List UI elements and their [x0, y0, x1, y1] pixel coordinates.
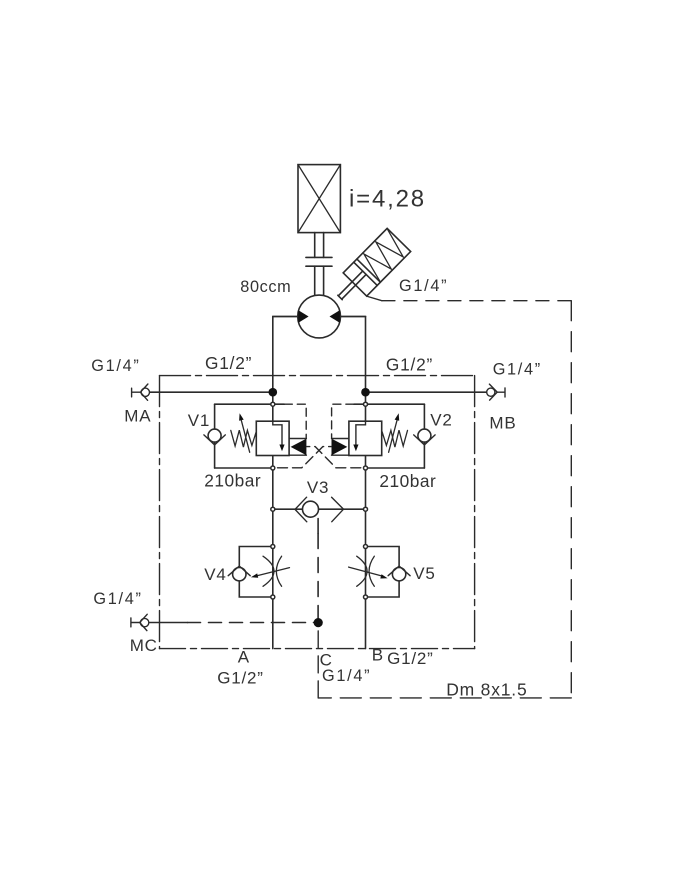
- hydraulic motor M1: [273, 295, 366, 338]
- svg-text:G1/4”: G1/4”: [399, 277, 448, 295]
- shaft (double line, two segments): [315, 233, 324, 296]
- V5 check ball: [392, 568, 405, 581]
- svg-text:V2: V2: [430, 410, 452, 429]
- V5 adjustment arrow: [349, 567, 381, 576]
- V1 spring: [231, 430, 256, 447]
- relief valve V2 loop top wire: [354, 403, 425, 405]
- block boundary left (dash-dot): [159, 376, 161, 649]
- phantom drain line Dm left segment to node C (dashed): [317, 627, 319, 698]
- svg-text:210bar: 210bar: [204, 471, 261, 491]
- wire V3 output stub: [317, 519, 319, 534]
- svg-text:210bar: 210bar: [379, 471, 436, 491]
- V4 check ball: [233, 568, 246, 581]
- V2 pilot line (dashed): [332, 404, 354, 438]
- svg-text:i=4,28: i=4,28: [349, 186, 426, 213]
- coupling ticks: [306, 257, 332, 266]
- svg-text:80ccm: 80ccm: [240, 278, 291, 296]
- phantom drain line Dm top (dashed): [382, 300, 571, 302]
- brake cylinder (45 deg): [329, 228, 410, 310]
- svg-text:G1/2”: G1/2”: [387, 649, 434, 668]
- phantom drain line Dm bottom (dashed): [318, 697, 571, 699]
- V2 spring: [382, 430, 408, 447]
- svg-text:MB: MB: [489, 413, 516, 432]
- node V3 right: [364, 507, 368, 511]
- phantom drain line Dm right (dashed): [570, 301, 572, 698]
- block boundary right (dash-dot): [474, 376, 476, 649]
- svg-text:V1: V1: [188, 411, 210, 430]
- relief valve V1 loop bottom wire: [215, 467, 273, 469]
- node V2 bottom: [364, 466, 368, 470]
- wire leg A (motor left port down to port A): [273, 317, 298, 649]
- wire MA line: [150, 391, 273, 393]
- node V4 top: [271, 545, 275, 549]
- wire leg B (motor right port down to port B): [340, 317, 365, 649]
- node V1 top: [271, 402, 275, 406]
- node V4 bottom: [271, 595, 275, 599]
- flow control V4 bypass loop: [239, 547, 272, 598]
- leader from brake port to phantom line: [367, 296, 382, 301]
- svg-text:G1/4”: G1/4”: [91, 357, 140, 375]
- V1 pilot line (dashed): [284, 404, 306, 438]
- port MC (test point): [131, 614, 149, 630]
- wire MC solid stub: [149, 622, 187, 624]
- svg-text:A: A: [238, 647, 250, 666]
- wire V3 output dashed to node C: [317, 534, 319, 619]
- wire MC dashed line to node C: [188, 622, 316, 624]
- node junction MA-legA (filled): [269, 388, 278, 397]
- relief valve V1 loop top wire: [215, 403, 285, 405]
- V4 adjustment arrow: [255, 568, 290, 577]
- block boundary top (dash-dot): [160, 375, 475, 377]
- svg-text:G1/2”: G1/2”: [217, 669, 264, 688]
- node C (filled): [314, 618, 323, 627]
- relief valve V2 body: [349, 421, 382, 455]
- node V5 top: [364, 545, 368, 549]
- svg-text:G1/4”: G1/4”: [322, 667, 371, 685]
- svg-text:MA: MA: [124, 406, 151, 425]
- shuttle valve V3 cross wire: [273, 508, 366, 510]
- svg-text:MC: MC: [130, 636, 158, 655]
- svg-text:G1/4”: G1/4”: [493, 360, 542, 378]
- node V3 left: [271, 507, 275, 511]
- node V5 bottom: [364, 595, 368, 599]
- svg-text:Dm 8x1.5: Dm 8x1.5: [446, 679, 527, 699]
- relief valve V2 check branch wire: [423, 404, 425, 468]
- port MB (test point): [487, 384, 505, 400]
- svg-text:G1/4”: G1/4”: [93, 590, 142, 608]
- V4 throttle arcs: [263, 556, 282, 586]
- V4 check seat: [228, 566, 250, 576]
- svg-text:G1/2”: G1/2”: [205, 353, 252, 373]
- V1 adjustment arrow: [241, 419, 250, 453]
- relief valve V1 check branch wire: [214, 404, 216, 468]
- V1 pilot piston: [289, 439, 306, 456]
- V1 internal flow path with arrow: [273, 421, 282, 447]
- V3 right seat: [332, 497, 344, 521]
- node V2 top: [364, 402, 368, 406]
- svg-text:V5: V5: [413, 564, 435, 583]
- V2 internal flow path with arrow: [356, 421, 366, 447]
- V1 check valve seat: [204, 435, 225, 445]
- flow control V5 bypass loop: [366, 547, 400, 598]
- V5 check seat: [388, 566, 410, 576]
- pilot crossover line A-side to V2 (dashed): [278, 447, 332, 468]
- V3 left seat: [295, 497, 307, 522]
- V2 check valve ball: [418, 429, 431, 442]
- V2 pilot piston: [332, 439, 349, 456]
- V2 adjustment arrow: [389, 419, 398, 453]
- block boundary bottom (dash-dot): [160, 648, 475, 650]
- wire MB line: [366, 391, 488, 393]
- port MA (test point): [132, 384, 150, 400]
- pilot crossover line B-side to V1 (dashed): [307, 447, 361, 468]
- relief valve V2 loop bottom wire: [366, 467, 425, 469]
- svg-text:B: B: [372, 646, 384, 665]
- svg-text:V3: V3: [307, 478, 329, 497]
- relief valve V1 body: [256, 421, 289, 455]
- V5 throttle arcs: [357, 556, 375, 586]
- node V1 bottom: [271, 466, 275, 470]
- V2 check valve seat: [414, 435, 435, 445]
- svg-text:G1/2”: G1/2”: [386, 355, 433, 375]
- svg-text:V4: V4: [204, 565, 226, 584]
- gearbox: [298, 165, 340, 233]
- V1 check valve ball: [208, 429, 221, 442]
- node junction MB-legB (filled): [361, 388, 370, 397]
- V3 ball: [303, 501, 319, 517]
